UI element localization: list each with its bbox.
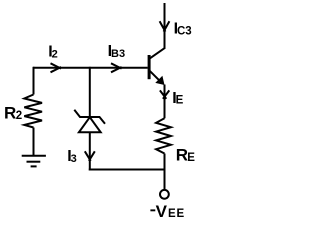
wire R2 bottom to ground bbox=[33, 128, 35, 156]
svg-text:C3: C3 bbox=[177, 26, 192, 38]
current arrow I3 bbox=[85, 151, 91, 161]
svg-text:3: 3 bbox=[71, 153, 77, 165]
label R2 bbox=[4, 103, 22, 122]
label RE bbox=[176, 145, 195, 164]
label I2 bbox=[48, 44, 58, 61]
svg-text:E: E bbox=[176, 95, 184, 107]
label IB3 bbox=[108, 43, 125, 60]
svg-text:2: 2 bbox=[16, 110, 22, 122]
terminal circle -VEE bbox=[160, 190, 169, 199]
wire emitter vertical bbox=[164, 85, 166, 119]
wire middle branch vertical (top) bbox=[89, 67, 91, 117]
wire left vertical to R2 bbox=[33, 67, 35, 95]
label -VEE bbox=[150, 202, 185, 221]
transistor Q3 collector lead bbox=[150, 48, 165, 59]
current arrow IC3 bbox=[160, 21, 166, 31]
transistor Q3 base bar bbox=[148, 55, 151, 79]
svg-text:E: E bbox=[187, 152, 195, 164]
svg-text:B3: B3 bbox=[111, 48, 125, 60]
svg-text:R: R bbox=[4, 103, 16, 122]
current arrow IE bbox=[160, 90, 166, 98]
wire bottom horizontal bbox=[89, 169, 165, 171]
current arrow IB3 bbox=[111, 63, 122, 68]
wire middle branch vertical (bottom) bbox=[89, 132, 91, 170]
label I3 bbox=[67, 148, 77, 165]
label IE bbox=[172, 90, 183, 107]
current arrow I2 bbox=[51, 63, 62, 68]
transistor Q3 emitter lead with arrowhead bbox=[150, 71, 165, 85]
wire RE bottom to terminal bbox=[164, 154, 166, 191]
resistor R2 bbox=[24, 95, 42, 128]
svg-text:2: 2 bbox=[52, 49, 58, 61]
wire collector vertical bbox=[164, 3, 166, 49]
resistor RE bbox=[156, 118, 171, 153]
wire top horizontal (node between R2, zener and base) bbox=[33, 67, 148, 69]
svg-text:V: V bbox=[156, 202, 168, 221]
label IC3 bbox=[174, 21, 192, 38]
svg-text:EE: EE bbox=[168, 208, 185, 220]
zener diode cathode bar with bent ends bbox=[74, 110, 105, 124]
ground bbox=[22, 156, 46, 167]
zener diode anode triangle bbox=[79, 117, 101, 132]
